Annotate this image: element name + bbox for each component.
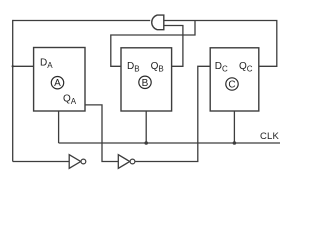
wire: CLK line bbox=[59, 142, 280, 144]
flip-flop A box bbox=[34, 48, 85, 112]
wire: Q_B up to AND input B bbox=[164, 26, 183, 67]
flip-flop B box bbox=[121, 48, 172, 111]
wire: AND output to top-left corner bbox=[13, 20, 151, 22]
node: CLK junction flip-flop B bbox=[144, 141, 148, 145]
wire: flip-flop C clock to CLK line bbox=[233, 111, 235, 143]
node: CLK junction flip-flop C bbox=[233, 141, 237, 145]
flip-flop C box bbox=[210, 48, 259, 111]
transistor: inverter 1 (triangle) bbox=[69, 155, 81, 169]
wire: branch to D_A input bbox=[13, 65, 34, 67]
label circled C bbox=[226, 78, 238, 90]
op-amp: AND gate U1 (faces left) bbox=[152, 15, 164, 30]
wire: Q_A to inverter 2 input bbox=[85, 105, 118, 162]
label circled B bbox=[139, 76, 151, 88]
transistor: inverter 1 bubble bbox=[81, 159, 86, 164]
wire: inverter 2 output to D_C input bbox=[135, 66, 210, 161]
transistor: inverter 2 (triangle) bbox=[118, 155, 130, 169]
node: D_A junction on left rail bbox=[12, 65, 14, 67]
wire: left rail down bbox=[12, 20, 14, 162]
wire: AND input A across top to Q_C bbox=[164, 21, 277, 67]
svg-text:A: A bbox=[54, 78, 61, 89]
wire: flip-flop B clock to CLK line bbox=[145, 111, 147, 143]
wire: staple Q_C net to D_B input bbox=[111, 21, 195, 67]
svg-text:C: C bbox=[228, 80, 235, 91]
svg-text:B: B bbox=[142, 78, 149, 89]
wire: flip-flop A clock to CLK line bbox=[58, 111, 60, 143]
wire: bottom-left to inverter 1 input bbox=[13, 161, 69, 163]
label circled A bbox=[51, 77, 63, 89]
svg-text:CLK: CLK bbox=[260, 131, 280, 142]
transistor: inverter 2 bubble bbox=[130, 159, 135, 164]
